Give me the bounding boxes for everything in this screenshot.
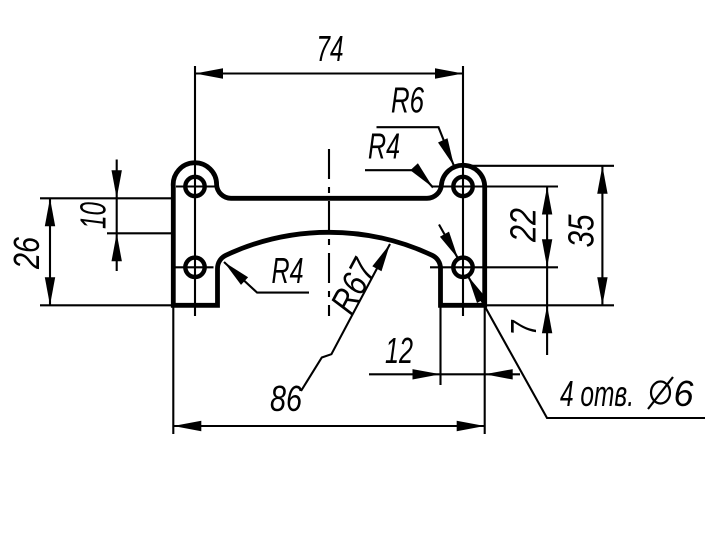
arrow 22 bottom <box>542 239 552 267</box>
dim line 74 <box>195 72 463 74</box>
hole top-right <box>453 177 472 196</box>
svg-text:12: 12 <box>385 330 413 371</box>
hole top-left <box>185 177 204 196</box>
ext line top for 26 <box>40 197 173 199</box>
centerline top-left hole <box>176 185 218 187</box>
ext line boss top for 35 <box>467 165 614 167</box>
svg-text:7: 7 <box>503 319 544 335</box>
ext line left edge for 86 <box>172 305 174 434</box>
dim line 26 <box>49 198 51 305</box>
centerline bottom-right hole / ext for 22 <box>430 266 558 268</box>
arrow 35 bottom <box>597 277 607 305</box>
centerline/extension left hole column <box>194 66 196 316</box>
dim line 35 <box>601 166 603 305</box>
leader R4 top <box>365 170 433 187</box>
arrow 7 bottom <box>542 305 552 333</box>
leader R6 <box>377 127 455 166</box>
ext line bottom for 26 <box>40 304 173 306</box>
arrow 26 top <box>45 198 55 226</box>
arrow R67 <box>372 244 390 271</box>
arrow dia6 upper <box>440 232 458 259</box>
vertical axis centerline <box>328 149 330 316</box>
arrow 10 top <box>112 170 122 198</box>
arrow 74 left <box>195 68 223 78</box>
arrow dia6 lower <box>468 276 486 303</box>
svg-text:74: 74 <box>317 28 344 69</box>
leader dia6 lower segment and shelf <box>468 276 705 418</box>
svg-text:R4: R4 <box>272 250 304 291</box>
arrow 35 top <box>597 166 607 194</box>
arrow 74 right <box>435 68 463 78</box>
svg-text:10: 10 <box>73 202 114 229</box>
dim line 86 <box>173 425 484 427</box>
arrow 12 left <box>413 369 441 379</box>
dim line 12 <box>369 373 520 375</box>
arrow R4 left <box>224 262 248 285</box>
arrow 22 top <box>542 187 552 215</box>
arrow 12 right <box>485 369 513 379</box>
arrow 26 bottom <box>45 277 55 305</box>
leader R67 with break jog <box>301 244 390 391</box>
dim line 10 <box>116 160 118 272</box>
ext line right edge for 12/86 <box>484 305 486 434</box>
ext line bottom right for 35/7 <box>486 304 614 306</box>
dim line 22 and 7 <box>546 187 548 356</box>
svg-text:R4: R4 <box>368 126 400 167</box>
arrow 86 right <box>457 421 485 431</box>
centerline top-right hole / ext for 22 <box>432 185 558 187</box>
leader R4 left <box>224 262 309 293</box>
hole bottom-right <box>453 258 472 277</box>
svg-text:22: 22 <box>503 208 544 243</box>
svg-text:86: 86 <box>270 378 303 419</box>
arrow R6 <box>438 138 454 166</box>
svg-text:6: 6 <box>674 373 695 414</box>
part outline (bracket body) <box>173 163 484 306</box>
svg-text:35: 35 <box>561 214 602 248</box>
ext line arch apex for 10 <box>107 232 173 234</box>
centerline bottom-left hole <box>175 266 214 268</box>
hole bottom-left <box>185 258 204 277</box>
ext line foot left for 12 <box>439 305 441 385</box>
svg-text:R6: R6 <box>391 80 425 121</box>
diameter symbol <box>648 377 673 409</box>
arrow R4 top <box>410 163 433 187</box>
centerline/extension right hole column <box>462 66 464 316</box>
arrow 86 left <box>173 421 201 431</box>
svg-text:26: 26 <box>6 236 47 270</box>
svg-text:4 оmв.: 4 оmв. <box>560 373 634 414</box>
arrow 10 bottom <box>112 233 122 261</box>
leader dia6 upper segment <box>439 225 458 259</box>
